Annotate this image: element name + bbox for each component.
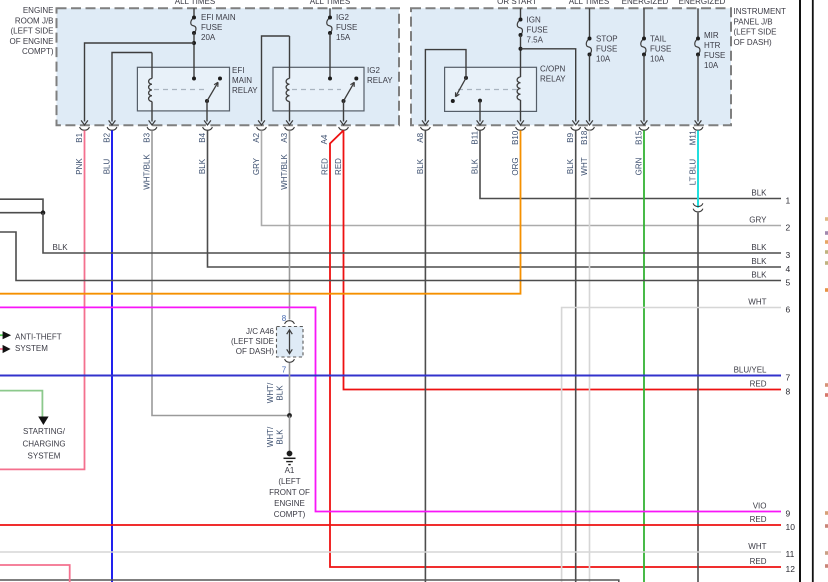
svg-text:ALL TIMES: ALL TIMES xyxy=(310,0,350,6)
wire to starting/charging (LT GRN) xyxy=(0,391,42,417)
svg-text:10A: 10A xyxy=(704,61,719,70)
svg-text:3: 3 xyxy=(786,250,791,260)
wire WHT output 6 xyxy=(562,308,781,582)
svg-text:GRY: GRY xyxy=(252,157,261,175)
wire BLK output 5 xyxy=(0,232,781,281)
svg-text:ROOM J/B: ROOM J/B xyxy=(15,16,54,25)
wire BLK output 3 xyxy=(43,213,781,253)
svg-text:WHT: WHT xyxy=(580,157,589,175)
svg-text:A1: A1 xyxy=(285,466,295,475)
wire B9 branch inside J/B xyxy=(521,49,576,122)
fuse EFI MAIN 20A xyxy=(193,8,195,17)
wire PNK bottom left xyxy=(0,565,70,582)
connector pin B9 xyxy=(572,120,579,125)
svg-text:WHT/BLK: WHT/BLK xyxy=(280,154,289,190)
wire A4 RED split xyxy=(344,130,782,389)
wire B1 branch inside J/B xyxy=(85,43,195,122)
svg-text:RED: RED xyxy=(750,557,767,566)
wire B9 BLK xyxy=(575,130,577,582)
fuse STOP 10A xyxy=(589,8,591,38)
svg-text:IGN: IGN xyxy=(527,16,541,25)
svg-text:BLK: BLK xyxy=(416,158,425,174)
svg-text:BLK: BLK xyxy=(751,189,767,198)
svg-text:EFI: EFI xyxy=(232,66,244,75)
connector pin B10 xyxy=(517,120,524,125)
fuse TAIL 10A xyxy=(643,8,645,38)
connector pin B11 xyxy=(477,120,484,125)
connector pin A8 xyxy=(422,120,429,125)
svg-text:RED: RED xyxy=(750,380,767,389)
svg-text:IG2: IG2 xyxy=(367,66,380,75)
connector pin M11 xyxy=(695,120,702,125)
svg-text:BLU: BLU xyxy=(103,158,112,174)
wire B3 WHT/BLK xyxy=(152,130,290,415)
svg-text:RELAY: RELAY xyxy=(367,76,393,85)
svg-text:TAIL: TAIL xyxy=(650,35,667,44)
svg-text:BLK: BLK xyxy=(751,257,767,266)
svg-text:B4: B4 xyxy=(198,132,207,142)
node junction xyxy=(41,210,46,215)
svg-text:20A: 20A xyxy=(201,33,216,42)
svg-text:ALL TIMES: ALL TIMES xyxy=(175,0,215,6)
wire B15 GRN xyxy=(643,130,645,582)
svg-text:B2: B2 xyxy=(103,132,112,142)
svg-text:(LEFT SIDE: (LEFT SIDE xyxy=(734,28,777,37)
instrument panel J/B box xyxy=(411,8,731,125)
svg-text:11: 11 xyxy=(786,549,795,559)
svg-text:B3: B3 xyxy=(143,132,152,142)
wire A8 BLK xyxy=(424,130,426,582)
svg-text:7: 7 xyxy=(786,373,791,383)
connector pin A3 xyxy=(286,120,293,125)
svg-text:B18: B18 xyxy=(580,130,589,145)
svg-text:WHT/: WHT/ xyxy=(266,382,275,403)
svg-text:MAIN: MAIN xyxy=(232,76,252,85)
svg-text:9: 9 xyxy=(786,509,791,519)
svg-text:A2: A2 xyxy=(252,132,261,142)
svg-text:B1: B1 xyxy=(75,132,84,142)
wire B18 WHT xyxy=(589,130,591,582)
svg-text:IG2: IG2 xyxy=(336,13,349,22)
svg-text:8: 8 xyxy=(786,387,791,397)
svg-text:8: 8 xyxy=(282,314,287,323)
svg-text:VIO: VIO xyxy=(753,502,767,511)
svg-text:OR START: OR START xyxy=(497,0,537,6)
svg-text:7.5A: 7.5A xyxy=(527,36,544,45)
svg-text:WHT: WHT xyxy=(748,542,766,551)
svg-text:ENGINE: ENGINE xyxy=(23,6,54,15)
ground A1 xyxy=(287,451,293,457)
svg-text:GRN: GRN xyxy=(635,157,644,175)
junction connector J/C A46 xyxy=(285,321,295,324)
svg-text:A4: A4 xyxy=(320,134,329,144)
svg-text:1: 1 xyxy=(786,196,791,206)
junction node WHT/BLK xyxy=(287,413,292,418)
wire A8 branch inside J/B xyxy=(425,50,466,122)
wire B10 ORG xyxy=(0,130,521,293)
svg-text:4: 4 xyxy=(786,264,791,274)
svg-text:CHARGING: CHARGING xyxy=(22,439,65,448)
svg-text:7: 7 xyxy=(282,366,287,375)
svg-text:EFI MAIN: EFI MAIN xyxy=(201,13,236,22)
svg-text:ORG: ORG xyxy=(511,157,520,175)
relay IG2 xyxy=(289,36,291,79)
stub wires joining at node xyxy=(0,199,43,213)
svg-text:LT BLU: LT BLU xyxy=(689,159,698,186)
svg-text:GRY: GRY xyxy=(749,216,767,225)
svg-text:FUSE: FUSE xyxy=(650,45,671,54)
svg-text:HTR: HTR xyxy=(704,41,721,50)
fuse IGN 7.5A xyxy=(520,8,522,19)
svg-text:BLK: BLK xyxy=(471,158,480,174)
connector pin B2 xyxy=(109,120,116,125)
svg-text:M11: M11 xyxy=(689,130,698,146)
wire WHT output 11 xyxy=(0,551,781,553)
page border lines xyxy=(799,0,801,582)
svg-text:ANTI-THEFT: ANTI-THEFT xyxy=(15,332,62,341)
lower J/B box (cut off) xyxy=(0,580,619,582)
svg-text:B9: B9 xyxy=(566,132,575,142)
svg-text:WHT: WHT xyxy=(748,298,766,307)
svg-text:OF DASH): OF DASH) xyxy=(734,38,773,47)
svg-text:ENGINE: ENGINE xyxy=(274,499,305,508)
svg-text:SYSTEM: SYSTEM xyxy=(28,452,61,461)
svg-text:2: 2 xyxy=(786,223,791,233)
svg-text:(LEFT SIDE: (LEFT SIDE xyxy=(231,337,274,346)
svg-text:A8: A8 xyxy=(416,132,425,142)
svg-text:FUSE: FUSE xyxy=(704,51,725,60)
svg-text:RELAY: RELAY xyxy=(232,86,258,95)
svg-text:ENERGIZED: ENERGIZED xyxy=(622,0,669,6)
svg-text:(LEFT SIDE: (LEFT SIDE xyxy=(11,27,54,36)
connector M11 to BLK xyxy=(693,203,703,206)
svg-text:PNK: PNK xyxy=(75,158,84,175)
svg-text:OF ENGINE: OF ENGINE xyxy=(9,37,53,46)
svg-text:10: 10 xyxy=(786,522,796,532)
svg-text:B10: B10 xyxy=(511,130,520,145)
svg-text:BLU/YEL: BLU/YEL xyxy=(734,366,767,375)
svg-text:STARTING/: STARTING/ xyxy=(23,427,66,436)
svg-text:INSTRUMENT: INSTRUMENT xyxy=(734,7,787,16)
wire BLK below M11 connector xyxy=(697,213,699,582)
wire RED output 10 xyxy=(0,524,781,526)
connector pin A4 xyxy=(340,120,347,125)
svg-text:OF DASH): OF DASH) xyxy=(236,347,275,356)
svg-text:10A: 10A xyxy=(596,55,611,64)
wire to anti-theft (PNK) xyxy=(0,348,3,350)
svg-text:B15: B15 xyxy=(635,130,644,145)
wire to anti-theft (GRN) xyxy=(0,334,3,336)
svg-text:6: 6 xyxy=(786,305,791,315)
svg-text:10A: 10A xyxy=(650,55,665,64)
svg-text:ALL TIMES: ALL TIMES xyxy=(569,0,609,6)
svg-text:(LEFT: (LEFT xyxy=(278,477,300,486)
relay boxes (drawn first for z-order) xyxy=(137,67,229,111)
connector pin B4 xyxy=(204,120,211,125)
svg-text:RED: RED xyxy=(750,515,767,524)
svg-text:5: 5 xyxy=(786,278,791,288)
svg-text:PANEL J/B: PANEL J/B xyxy=(734,17,773,26)
fuse IG2 15A xyxy=(329,8,331,17)
svg-text:RED: RED xyxy=(321,158,330,175)
svg-text:BLK: BLK xyxy=(276,385,285,401)
svg-text:COMPT): COMPT) xyxy=(274,510,306,519)
wire B1 PNK xyxy=(0,130,85,469)
svg-text:FUSE: FUSE xyxy=(201,23,222,32)
engine room J/B box xyxy=(57,8,400,125)
svg-text:A3: A3 xyxy=(280,132,289,142)
svg-text:C/OPN: C/OPN xyxy=(540,65,566,74)
fuse MIR HTR 10A xyxy=(697,8,699,38)
wire A3 WHT/BLK to J/C A46 xyxy=(289,130,291,319)
wire A4 RED second branch / output 12 xyxy=(330,130,781,567)
svg-text:BLK: BLK xyxy=(276,429,285,445)
connector pin A2 xyxy=(258,120,265,125)
svg-text:BLK: BLK xyxy=(751,243,767,252)
svg-text:WHT/BLK: WHT/BLK xyxy=(143,154,152,190)
svg-text:WHT/: WHT/ xyxy=(266,426,275,447)
svg-text:ENERGIZED: ENERGIZED xyxy=(679,0,726,6)
svg-text:FRONT OF: FRONT OF xyxy=(269,488,310,497)
svg-text:BLK: BLK xyxy=(53,243,69,252)
wire A2 branch inside J/B xyxy=(262,36,290,122)
relay C/OPN xyxy=(517,77,520,100)
svg-text:FUSE: FUSE xyxy=(336,23,357,32)
wire B2 branch inside J/B xyxy=(112,53,152,122)
svg-text:B11: B11 xyxy=(471,130,480,144)
svg-text:FUSE: FUSE xyxy=(596,45,617,54)
wire WHT/BLK from J/C to ground xyxy=(289,363,291,416)
svg-text:RELAY: RELAY xyxy=(540,75,566,84)
connector pin B15 xyxy=(641,120,648,125)
wire BLU/YEL output 7 xyxy=(0,375,781,377)
wire B2 BLU xyxy=(111,130,113,582)
relay EFI MAIN xyxy=(151,53,153,79)
svg-text:SYSTEM: SYSTEM xyxy=(15,344,48,353)
svg-text:J/C A46: J/C A46 xyxy=(246,327,275,336)
svg-text:BLK: BLK xyxy=(198,158,207,174)
svg-text:15A: 15A xyxy=(336,33,351,42)
svg-text:BLK: BLK xyxy=(751,271,767,280)
svg-text:12: 12 xyxy=(786,564,796,574)
svg-text:FUSE: FUSE xyxy=(527,26,548,35)
svg-text:MIR: MIR xyxy=(704,31,719,40)
wire VIO output 9 xyxy=(0,307,781,511)
svg-text:BLK: BLK xyxy=(566,158,575,174)
cut-off label fragments on next page xyxy=(825,217,828,221)
wire B4 BLK / output 4 xyxy=(208,130,782,267)
connector pin B18 xyxy=(586,120,593,125)
wire M11 LT BLU xyxy=(697,130,699,207)
svg-text:STOP: STOP xyxy=(596,35,618,44)
svg-text:COMPT): COMPT) xyxy=(22,47,54,56)
svg-text:RED: RED xyxy=(334,158,343,175)
wire B11 BLK / output 1 xyxy=(480,130,781,198)
connector pin B1 xyxy=(81,120,88,125)
wire A2 GRY / output 2 xyxy=(262,130,782,225)
connector pin B3 xyxy=(149,120,156,125)
